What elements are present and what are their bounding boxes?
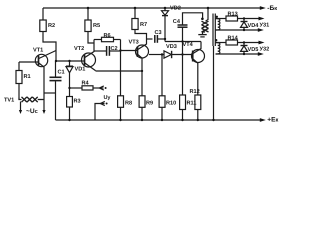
- svg-text:У31: У31: [260, 23, 270, 29]
- resistor R7: [132, 8, 147, 43]
- svg-text:R9: R9: [146, 101, 153, 107]
- node secondary 1 polarity dot: [216, 16, 218, 18]
- svg-text:C2: C2: [111, 46, 118, 52]
- wire bus to TV2 primary: [206, 8, 209, 21]
- svg-text:R13: R13: [228, 12, 238, 18]
- wire rail VD2 to VT4 base column: [165, 41, 201, 43]
- transformer TV2 secondary 2 bumps: [216, 43, 220, 55]
- wire emitter rail to VT3: [96, 70, 143, 72]
- transistor VT3: [136, 43, 149, 96]
- resistor R2: [40, 8, 56, 61]
- svg-text:R4: R4: [82, 81, 90, 87]
- wire primary bottom to ground and VT4 collector: [203, 31, 206, 33]
- wire TV1 right terminal arrow: [42, 100, 45, 115]
- svg-text:R8: R8: [125, 101, 132, 107]
- transformer TV2 primary winding: [202, 21, 209, 32]
- wire secondary 1 bottom lead Y31: [216, 28, 264, 32]
- svg-text:C1: C1: [58, 70, 65, 76]
- svg-text:+Ек: +Ек: [267, 117, 278, 124]
- resistor R9: [139, 96, 145, 120]
- wire VT3 base: [121, 50, 138, 52]
- resistor R3: [67, 88, 73, 120]
- svg-text:VD1: VD1: [75, 67, 86, 73]
- resistor R4: [70, 86, 104, 90]
- svg-text:C3: C3: [155, 30, 162, 36]
- svg-text:TV1: TV1: [4, 98, 14, 104]
- wire Uy input arrow 1: [99, 86, 106, 90]
- transformer TV2 core: [213, 14, 215, 47]
- wire secondary 2 top lead: [216, 42, 226, 44]
- capacitor C3: [147, 35, 166, 43]
- svg-text:R12: R12: [190, 89, 200, 95]
- diode VD3: [149, 51, 193, 58]
- node bottom bus junction dots: [68, 119, 214, 121]
- svg-text:C4: C4: [173, 19, 181, 25]
- capacitor C2: [94, 46, 121, 56]
- transistor VT4: [192, 42, 205, 96]
- wire core column to bottom bus: [213, 46, 215, 120]
- svg-text:VT3: VT3: [129, 40, 139, 46]
- capacitor C1: [50, 61, 62, 120]
- svg-text:R3: R3: [74, 99, 81, 105]
- svg-text:Uу: Uу: [104, 95, 111, 101]
- svg-text:VD4: VD4: [248, 23, 260, 29]
- node VD4 junctions: [243, 17, 245, 31]
- resistor R1: [16, 62, 22, 98]
- wire bottom bus: [56, 119, 261, 121]
- resistor R5: [85, 8, 94, 43]
- resistor R12: [195, 95, 201, 120]
- node VD5 junctions: [243, 41, 245, 55]
- wire R6-C2 right stub down to R8: [120, 40, 122, 96]
- transformer TV1 primary winding: [19, 97, 44, 102]
- wire output Y31 top arrow: [259, 17, 265, 21]
- svg-text:R14: R14: [228, 36, 239, 42]
- wire TV1 left terminal arrow: [19, 102, 22, 115]
- wire Uy input arrow 2: [95, 101, 108, 120]
- node VD1 top junction: [55, 60, 71, 62]
- svg-text:R1: R1: [24, 74, 31, 80]
- svg-text:VT2: VT2: [74, 46, 84, 52]
- wire secondary 2 bottom lead Y32: [216, 52, 264, 56]
- svg-text:R6: R6: [104, 33, 111, 39]
- resistor R10: [159, 55, 165, 121]
- node top bus junction dots: [87, 7, 210, 10]
- svg-text:R11: R11: [187, 101, 197, 107]
- ground: [198, 32, 206, 37]
- transistor VT1: [19, 51, 56, 100]
- svg-text:VD2: VD2: [170, 6, 181, 12]
- wire emitter to C1 column link: [44, 92, 56, 94]
- node stub base junction: [119, 49, 121, 51]
- node VD3 line junction: [161, 53, 163, 55]
- svg-text:~Uc: ~Uc: [26, 108, 38, 115]
- diode VD4: [241, 19, 248, 31]
- resistor R6: [94, 37, 121, 41]
- node secondary 2 polarity dot: [215, 39, 217, 41]
- wire top bus arrow: [260, 6, 266, 10]
- diode VD2: [162, 8, 169, 42]
- wire output Y32 top arrow: [259, 41, 265, 45]
- wire bottom bus arrow: [260, 118, 266, 122]
- wire secondary 1 top lead: [216, 18, 226, 20]
- wire R2 to VT2 base rail: [56, 60, 82, 62]
- wire top bus: [43, 7, 260, 9]
- transistor VT2: [82, 40, 96, 71]
- resistor R8: [118, 96, 124, 120]
- transformer TV2 secondary 1 winding: [216, 19, 220, 31]
- resistor R13: [226, 16, 259, 21]
- svg-text:R5: R5: [93, 23, 100, 29]
- capacitor C4: [178, 13, 203, 95]
- svg-text:R7: R7: [140, 22, 147, 28]
- svg-text:VD3: VD3: [166, 44, 177, 50]
- svg-text:У32: У32: [260, 47, 270, 53]
- diode VD1: [66, 61, 73, 88]
- node emitter rail junction: [141, 70, 143, 72]
- svg-text:VT1: VT1: [33, 48, 43, 54]
- svg-text:VD5: VD5: [248, 47, 259, 53]
- resistor R11: [180, 95, 186, 120]
- node R4 line junctions: [68, 87, 70, 89]
- svg-text:R2: R2: [48, 23, 55, 29]
- node VD2 bottom junction: [164, 38, 166, 40]
- resistor R14: [226, 40, 259, 45]
- node C4 junctions: [181, 18, 203, 56]
- svg-text:-Бк: -Бк: [267, 5, 277, 12]
- diode VD5: [241, 43, 248, 55]
- svg-text:VT4: VT4: [183, 42, 194, 48]
- svg-text:R10: R10: [166, 101, 176, 107]
